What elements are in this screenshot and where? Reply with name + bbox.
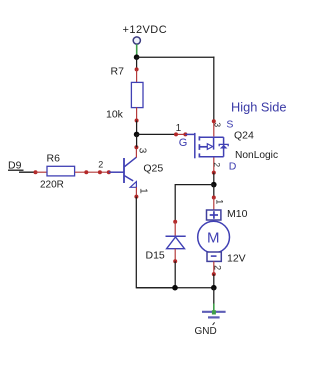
cathode bar — [166, 235, 186, 237]
svg-text:2: 2 — [212, 265, 222, 270]
channel segment top — [198, 136, 200, 140]
power port +12VDC — [123, 24, 168, 57]
svg-text:Q24: Q24 — [234, 130, 254, 142]
motor body — [198, 221, 230, 253]
node D junction — [211, 182, 217, 188]
source inner vertical — [213, 137, 215, 149]
anode triangle — [167, 237, 185, 249]
wire R6 to Q25 base — [75, 160, 111, 175]
wire Q25 collector to gate junction — [136, 134, 138, 147]
node top junction — [134, 54, 140, 60]
wire D15 to bottom rail — [174, 261, 176, 287]
svg-text:2: 2 — [98, 160, 103, 170]
body diode bar — [219, 144, 228, 146]
resistor R7 — [106, 66, 143, 123]
wire right drop to Q24 source — [213, 57, 215, 122]
svg-text:D9: D9 — [8, 159, 22, 171]
wire Q25 emitter to bottom rail — [136, 197, 175, 288]
svg-text:R7: R7 — [111, 66, 125, 78]
bottom line — [199, 156, 223, 158]
svg-text:220R: 220R — [40, 179, 64, 190]
wire D9 to R6 — [19, 171, 36, 173]
right vertical — [223, 137, 225, 157]
svg-text:R6: R6 — [47, 153, 61, 165]
wire D junction left and down to D15 — [175, 185, 214, 222]
svg-text:1: 1 — [215, 199, 225, 204]
svg-text:GND: GND — [195, 326, 217, 337]
net label D9 — [8, 159, 24, 171]
collector pin — [135, 147, 137, 157]
node rail D15 junction — [172, 285, 178, 291]
svg-text:S: S — [226, 118, 233, 130]
ground GND — [195, 288, 226, 337]
svg-text:NonLogic: NonLogic — [235, 150, 278, 161]
gate lead — [185, 133, 194, 135]
svg-text:M: M — [207, 230, 220, 247]
svg-text:2: 2 — [212, 162, 222, 167]
arrow — [207, 144, 212, 150]
svg-text:G: G — [179, 137, 188, 149]
transistor Q25 NPN — [109, 145, 164, 198]
wire bottom rail — [136, 287, 214, 289]
wire Q24 drain to D junction — [213, 173, 215, 185]
svg-text:12V: 12V — [227, 252, 246, 264]
transistor Q24 P-MOSFET — [176, 118, 278, 174]
wire D junction to motor — [213, 185, 215, 198]
svg-text:D: D — [229, 161, 237, 173]
svg-text:1: 1 — [138, 188, 149, 194]
svg-text:D15: D15 — [146, 249, 165, 261]
svg-text:10k: 10k — [106, 109, 124, 121]
top line — [199, 136, 223, 138]
wire motor to bottom rail — [213, 274, 215, 288]
body diode triangle — [220, 145, 228, 149]
node gate junction — [134, 132, 140, 138]
wire junction down to R7 — [136, 57, 138, 69]
collector diagonal — [124, 157, 136, 167]
minus terminal box — [207, 252, 221, 261]
wire top rail to right — [137, 56, 215, 58]
svg-text:3: 3 — [137, 148, 148, 154]
base lead — [109, 171, 124, 173]
svg-text:1: 1 — [176, 123, 182, 134]
wire R7 bottom to gate junction — [136, 121, 138, 135]
svg-text:+12VDC: +12VDC — [123, 24, 168, 36]
drain pin — [213, 158, 215, 173]
diode D15 — [146, 220, 186, 264]
svg-text:Q25: Q25 — [143, 162, 163, 174]
svg-text:High Side: High Side — [231, 99, 287, 114]
emitter diagonal — [124, 176, 133, 181]
svg-text:3: 3 — [213, 122, 223, 127]
source pin — [213, 121, 215, 136]
middle stub — [199, 146, 207, 148]
svg-text:M10: M10 — [227, 208, 248, 220]
resistor R6 — [34, 153, 75, 191]
plus terminal box — [207, 210, 221, 220]
channel segment bottom — [198, 153, 200, 157]
wire gate junction to Q24 gate — [137, 132, 188, 136]
node rail GND junction — [211, 285, 217, 291]
emitter arrow — [130, 182, 136, 188]
channel segment middle — [198, 144, 200, 150]
base bar — [123, 158, 125, 183]
emitter pin — [135, 187, 137, 196]
motor M10 — [198, 196, 248, 277]
